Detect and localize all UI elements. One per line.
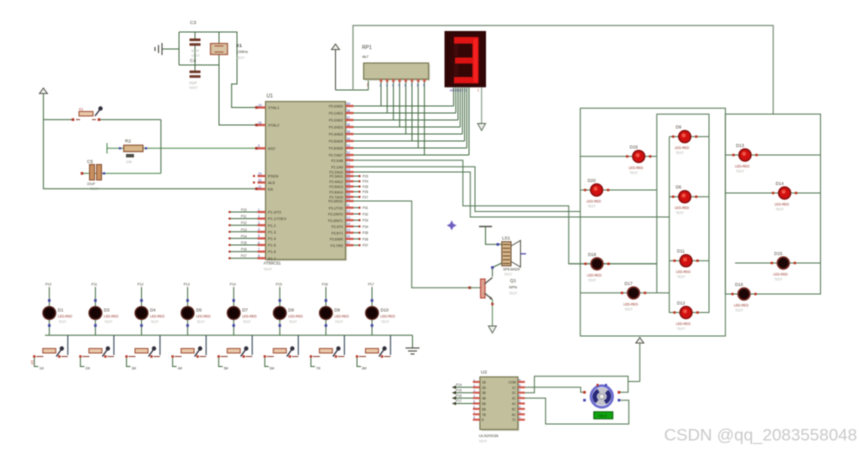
svg-text:19: 19 (258, 103, 262, 107)
power VCC (RP1) (332, 44, 340, 90)
box C frame (725, 114, 820, 294)
svg-text:P17: P17 (241, 254, 247, 258)
svg-text:LED-RED: LED-RED (242, 315, 257, 319)
U1 pin P2.2 (329, 168, 353, 175)
wire P0.5 run (354, 140, 465, 142)
svg-text:K1: K1 (79, 108, 83, 112)
LED D16 (725, 282, 820, 313)
svg-text:P16: P16 (322, 283, 328, 287)
svg-text:6: 6 (258, 241, 260, 245)
U2 pin 3 left (452, 388, 486, 395)
wire DS1 segment F (464, 87, 466, 141)
svg-text:P0.2/AD2: P0.2/AD2 (329, 119, 343, 123)
U1 pin P0.4 (329, 130, 354, 137)
svg-text:P17: P17 (456, 399, 462, 403)
LED D19 (580, 144, 657, 175)
wire P3.0 to Q1 base (354, 201, 472, 289)
wire Q1 emitter + ground arrow (488, 300, 496, 334)
svg-text:COM: COM (508, 380, 516, 384)
LED D6 (669, 185, 709, 216)
button SW4 (171, 335, 206, 370)
svg-text:LED-RED: LED-RED (629, 166, 644, 170)
svg-text:30pF: 30pF (191, 49, 200, 53)
svg-text:P37: P37 (363, 244, 369, 248)
button SW7 (310, 335, 345, 370)
U1 pin P0.0 (329, 102, 354, 109)
svg-text:TEXT: TEXT (736, 170, 744, 174)
wire P0.7 run (354, 154, 470, 156)
svg-text:XTAL2: XTAL2 (268, 124, 279, 128)
wire LS1 to Q1 (491, 263, 502, 277)
svg-text:P15: P15 (276, 283, 282, 287)
svg-text:P3.1/TXD: P3.1/TXD (329, 206, 344, 210)
svg-text:C3: C3 (190, 20, 196, 26)
LED D8 (273, 283, 304, 336)
button SW5 (218, 335, 253, 370)
svg-text:P33: P33 (363, 219, 369, 223)
svg-text:LED-RED: LED-RED (334, 315, 349, 319)
LED D11 (669, 249, 709, 280)
U2 pin right 3C (512, 394, 525, 401)
svg-text:CSDN @qq_2083558048: CSDN @qq_2083558048 (664, 426, 857, 445)
U1 pin P1.4 (229, 234, 276, 241)
wire P0.1 run (354, 112, 456, 114)
U1 pin P0.3 (329, 123, 354, 130)
U2 pin 7 left (473, 410, 486, 417)
svg-text:P1.3: P1.3 (268, 230, 276, 234)
wire reset top (43, 119, 160, 121)
svg-text:P3.0/RXD: P3.0/RXD (328, 200, 343, 204)
svg-text:PSEN: PSEN (268, 175, 279, 179)
wire reset right (160, 120, 162, 174)
button SW6 (264, 335, 299, 370)
svg-text:D19: D19 (630, 144, 639, 149)
U1 pin P3.4 (331, 222, 368, 229)
svg-text:P1.6: P1.6 (268, 250, 276, 254)
U2 pin 5 left (452, 399, 486, 406)
svg-text:ALE: ALE (268, 181, 276, 185)
LED D9 (319, 283, 350, 336)
wire P2.0 to D18 row (354, 160, 657, 264)
svg-text:6#: 6# (270, 366, 275, 371)
wire P0.0 run (354, 105, 454, 107)
svg-text:P13: P13 (241, 228, 247, 232)
svg-text:5B: 5B (482, 402, 486, 406)
RP1 pin 9 wire (423, 79, 426, 155)
svg-text:P12: P12 (241, 221, 247, 225)
button SW8 (356, 335, 391, 370)
svg-text:P14: P14 (230, 283, 236, 287)
svg-text:D8: D8 (288, 308, 294, 313)
svg-text:P2.5/A13: P2.5/A13 (329, 185, 343, 189)
LED D13 (725, 143, 820, 174)
svg-text:LED-RED: LED-RED (58, 315, 73, 319)
transistor Q1 (470, 278, 518, 300)
svg-text:P1.7: P1.7 (268, 257, 276, 261)
LED D15 (735, 251, 821, 282)
svg-text:D9: D9 (676, 125, 682, 130)
wire DS1 common + ground arrow (478, 87, 486, 130)
svg-text:P25: P25 (363, 185, 369, 189)
svg-text:6B: 6B (482, 407, 486, 411)
svg-text:5: 5 (258, 234, 260, 238)
svg-text:26: 26 (347, 182, 351, 186)
svg-text:P0.1/AD1: P0.1/AD1 (329, 112, 343, 116)
DS1 pin labels (450, 88, 480, 92)
U1 pin P2.3 (330, 172, 369, 179)
svg-text:8: 8 (258, 254, 260, 258)
node marker (plus) (447, 220, 457, 230)
svg-text:TEXT: TEXT (479, 440, 487, 444)
svg-text:P15: P15 (241, 241, 247, 245)
svg-text:LED-RED: LED-RED (196, 315, 211, 319)
U1 pin XTAL1 (258, 103, 280, 110)
wire top rail (353, 26, 773, 115)
svg-text:NPN: NPN (509, 286, 517, 290)
button SW2 (79, 335, 114, 370)
U1 pin P2.7 (329, 193, 368, 200)
RP1 pin 4 wire (392, 79, 395, 120)
LED D12 (669, 301, 709, 332)
svg-text:9: 9 (258, 144, 260, 148)
svg-text:P24: P24 (363, 180, 369, 184)
svg-text:C4: C4 (190, 58, 196, 64)
svg-text:TEXT: TEXT (504, 273, 512, 277)
svg-text:LED-RED: LED-RED (104, 315, 119, 319)
LED D20 (580, 178, 657, 209)
svg-text:3#: 3# (132, 366, 137, 371)
svg-text:LED-RED: LED-RED (675, 206, 690, 210)
svg-text:TEXT: TEXT (58, 320, 66, 324)
driver U2 body (479, 369, 520, 443)
svg-text:P3.4/T0: P3.4/T0 (331, 225, 343, 229)
svg-text:AT89C51: AT89C51 (264, 261, 282, 266)
svg-text:5#: 5# (224, 366, 229, 371)
svg-text:P2.4/A12: P2.4/A12 (329, 180, 343, 184)
ground (crystal) (155, 43, 179, 55)
svg-text:C5: C5 (87, 159, 93, 164)
U2 pin right 7C (512, 416, 525, 423)
svg-text:17: 17 (347, 241, 351, 245)
svg-text:R2: R2 (125, 139, 131, 144)
svg-text:E: E (482, 418, 484, 422)
wire P0.2 run (354, 119, 459, 121)
svg-text:LED-RED: LED-RED (676, 270, 691, 274)
button SW3 (125, 335, 160, 370)
svg-text:LED-RED: LED-RED (288, 315, 303, 319)
MCU U1 body (264, 94, 348, 272)
svg-text:P12: P12 (138, 283, 144, 287)
svg-text:Q1: Q1 (510, 278, 517, 283)
box B frame (657, 114, 709, 312)
svg-text:18: 18 (258, 121, 262, 125)
svg-text:4B: 4B (482, 397, 486, 401)
svg-text:4k7: 4k7 (362, 54, 369, 59)
LED D1 (42, 283, 73, 336)
svg-text:TEXT: TEXT (243, 320, 251, 324)
LED D14 (725, 181, 820, 212)
wire EA rail (43, 120, 257, 191)
RP1 pin 2 wire (380, 79, 383, 106)
U1 pin P2.1 (331, 163, 353, 170)
svg-text:RP1: RP1 (362, 45, 372, 51)
svg-text:D10: D10 (381, 308, 390, 313)
svg-text:D6: D6 (676, 185, 682, 190)
svg-text:P3.6/WR: P3.6/WR (330, 238, 344, 242)
wire reset bottom (green) (81, 172, 161, 175)
U1 pin P3.5 (331, 229, 368, 236)
svg-text:2B: 2B (482, 386, 486, 390)
U1 pin P3.7 (331, 241, 369, 248)
svg-text:D1: D1 (58, 308, 64, 313)
U1 pin P0.7 (329, 151, 354, 158)
svg-text:P36: P36 (363, 237, 369, 241)
svg-text:11: 11 (347, 204, 351, 208)
svg-text:P1.4: P1.4 (268, 237, 276, 241)
svg-text:D6: D6 (196, 308, 202, 313)
svg-text:D4: D4 (150, 308, 156, 313)
svg-text:EA: EA (268, 188, 274, 192)
U2 pin 8 left (473, 416, 484, 423)
svg-text:D12: D12 (677, 301, 686, 306)
svg-text:P14: P14 (241, 234, 247, 238)
U1 pin P3.3 (328, 216, 368, 223)
svg-text:P16: P16 (241, 248, 247, 252)
wire LED rail (45, 334, 413, 336)
svg-text:TEXT: TEXT (289, 320, 297, 324)
svg-text:TEXT: TEXT (381, 320, 389, 324)
U1 pin EA (258, 185, 274, 192)
RP1 pin 3 wire (386, 79, 389, 113)
svg-text:P23: P23 (363, 175, 369, 179)
svg-text:7C: 7C (512, 418, 517, 422)
svg-text:P1.1/T2EX: P1.1/T2EX (268, 217, 287, 221)
svg-text:X1: X1 (236, 43, 242, 49)
U1 pin RST (258, 144, 277, 151)
svg-text:4: 4 (258, 228, 260, 232)
svg-text:LED-RED: LED-RED (676, 322, 691, 326)
svg-text:+88.8: +88.8 (598, 414, 607, 418)
svg-text:2: 2 (380, 84, 382, 88)
svg-text:LED-RED: LED-RED (735, 165, 750, 169)
LED D4 (135, 283, 166, 336)
svg-text:2C: 2C (512, 391, 517, 395)
wire VCC to motor (628, 381, 640, 383)
power bar (LS1) (479, 227, 502, 245)
wire DS1 segment B (455, 87, 457, 113)
svg-text:LED-RED: LED-RED (587, 273, 602, 277)
U1 pin P3.2 (328, 210, 368, 217)
svg-text:34: 34 (347, 137, 351, 141)
svg-text:1#: 1# (30, 360, 35, 365)
svg-text:D14: D14 (776, 181, 785, 186)
svg-text:LED-RED: LED-RED (587, 200, 602, 204)
svg-text:ULN2003A: ULN2003A (479, 433, 499, 438)
LED D17 (580, 281, 669, 312)
crystal X1 (211, 43, 249, 60)
svg-text:P27: P27 (363, 195, 369, 199)
svg-text:15: 15 (347, 229, 351, 233)
svg-text:D18: D18 (588, 252, 597, 257)
svg-text:P3.3/INT1: P3.3/INT1 (328, 219, 343, 223)
svg-text:D13: D13 (736, 143, 745, 148)
svg-text:2: 2 (258, 214, 260, 218)
svg-text:36: 36 (347, 123, 351, 127)
svg-text:P34: P34 (363, 225, 369, 229)
wire U2 to motor right (525, 376, 628, 393)
svg-text:P1.0/T2: P1.0/T2 (268, 211, 281, 215)
svg-text:P2.6/A14: P2.6/A14 (329, 190, 343, 194)
U2 pin 6 left (473, 405, 486, 412)
svg-text:D11: D11 (677, 249, 685, 254)
svg-text:P0.4/AD4: P0.4/AD4 (329, 133, 343, 137)
LED D6 (181, 283, 212, 336)
svg-text:LED-RED: LED-RED (381, 315, 396, 319)
svg-text:13: 13 (347, 216, 351, 220)
svg-text:U2: U2 (481, 369, 487, 375)
svg-text:35: 35 (347, 130, 351, 134)
svg-text:32: 32 (347, 151, 351, 155)
wire P0.6 run (354, 147, 467, 149)
button K1 (reset) (72, 106, 103, 121)
svg-text:24: 24 (347, 172, 351, 176)
svg-text:22uF: 22uF (87, 182, 96, 186)
svg-text:25: 25 (347, 177, 351, 181)
svg-text:5: 5 (398, 84, 400, 88)
svg-text:P11: P11 (91, 283, 97, 287)
svg-text:12MHz: 12MHz (236, 50, 248, 54)
capacitor C4 (189, 58, 201, 90)
svg-text:LED-RED: LED-RED (150, 315, 165, 319)
wire DS1 segment A (453, 87, 455, 106)
svg-text:TEXT: TEXT (191, 54, 200, 58)
svg-text:10k: 10k (126, 160, 132, 164)
svg-text:TEXT: TEXT (151, 320, 159, 324)
svg-text:TEXT: TEXT (776, 208, 784, 212)
svg-text:3C: 3C (512, 397, 517, 401)
svg-text:TEXT: TEXT (630, 171, 638, 175)
svg-text:TEXT: TEXT (104, 320, 112, 324)
svg-text:4#: 4# (178, 366, 183, 371)
LED D10 (365, 283, 396, 336)
U1 pin ALE (253, 178, 276, 185)
svg-text:TEXT: TEXT (735, 309, 743, 313)
svg-text:TEXT: TEXT (335, 320, 343, 324)
svg-text:30pF: 30pF (189, 81, 198, 85)
U1 pin P2.4 (329, 177, 368, 184)
svg-text:P3.5/T1: P3.5/T1 (331, 231, 343, 235)
svg-text:33: 33 (347, 144, 351, 148)
U1 pin P3.1 (329, 204, 369, 211)
svg-text:P35: P35 (363, 231, 369, 235)
svg-text:4: 4 (392, 84, 394, 88)
svg-text:RST: RST (268, 147, 276, 151)
U2 pin 2 left (452, 383, 486, 390)
wire P2.1 to box A (354, 167, 581, 212)
U1 pin P2.6 (329, 188, 368, 195)
svg-text:12: 12 (347, 210, 351, 214)
wire XTAL1 top (179, 32, 258, 109)
box A frame (580, 108, 725, 336)
svg-text:P26: P26 (363, 190, 369, 194)
svg-text:14: 14 (347, 222, 351, 226)
U1 pin P2.0 (331, 156, 353, 163)
wire RST (green) (107, 143, 258, 154)
svg-text:P0.6/AD6: P0.6/AD6 (329, 147, 343, 151)
svg-text:TEXT: TEXT (197, 320, 205, 324)
U1 pin P1.7 (229, 254, 276, 261)
U1 pin P2.5 (329, 182, 368, 189)
svg-text:10: 10 (347, 197, 351, 201)
power VCC (LED block) (636, 338, 644, 382)
svg-text:P15: P15 (456, 388, 462, 392)
U1 pin P1.5 (229, 241, 276, 248)
svg-text:P0.3/AD3: P0.3/AD3 (329, 126, 343, 130)
RP1 pin 5 wire (398, 79, 401, 127)
svg-text:7#: 7# (316, 366, 321, 371)
RP1 pin 6 wire (404, 79, 407, 134)
7-segment display DS1 (445, 31, 487, 87)
resistor pack RP1 (362, 45, 430, 87)
svg-text:TEXT: TEXT (509, 292, 517, 296)
U2 pin right 6C (512, 410, 525, 417)
svg-text:D7: D7 (242, 308, 248, 313)
svg-text:22: 22 (347, 163, 351, 167)
U1 pin PSEN (253, 172, 279, 179)
svg-text:D17: D17 (625, 281, 634, 286)
wire DS1 segment G (466, 87, 468, 148)
svg-text:1B: 1B (482, 380, 486, 384)
LED D9 (669, 125, 709, 156)
svg-text:TEXT: TEXT (774, 278, 782, 282)
U2 pin right 5C (512, 405, 525, 412)
wire XTAL2 bottom (179, 32, 258, 126)
svg-text:38: 38 (347, 109, 351, 113)
wire P0.3 run (354, 126, 461, 128)
svg-text:P0.5/AD5: P0.5/AD5 (329, 140, 343, 144)
U1 pin P1.1 (229, 214, 287, 221)
wire P2.2 to box B (354, 172, 670, 217)
svg-text:37: 37 (347, 116, 351, 120)
svg-text:P14: P14 (456, 383, 462, 387)
svg-text:D20: D20 (588, 178, 597, 183)
svg-text:TEXT: TEXT (677, 327, 685, 331)
svg-text:1C: 1C (512, 386, 517, 390)
svg-text:D3: D3 (104, 308, 110, 313)
svg-text:P17: P17 (368, 283, 374, 287)
svg-text:TEXT: TEXT (588, 278, 596, 282)
svg-text:LED-RED: LED-RED (675, 146, 690, 150)
svg-text:8#: 8# (362, 366, 367, 371)
svg-text:LS1: LS1 (502, 236, 511, 241)
svg-text:P13: P13 (184, 283, 190, 287)
ground (LED rail) (406, 335, 420, 354)
watermark (664, 426, 857, 445)
wire U2 to motor left (525, 387, 583, 392)
svg-text:8: 8 (417, 84, 419, 88)
wire P0.4 run (354, 133, 463, 135)
svg-text:TEXT: TEXT (676, 151, 684, 155)
wire DS1 segment C (457, 87, 459, 120)
svg-text:4C: 4C (512, 402, 517, 406)
RP1 pin 7 wire (411, 79, 414, 141)
svg-text:2#: 2# (85, 366, 90, 371)
svg-text:1: 1 (367, 83, 369, 87)
svg-text:7B: 7B (482, 413, 486, 417)
svg-text:P0.0/AD0: P0.0/AD0 (329, 105, 343, 109)
svg-text:P10: P10 (45, 283, 51, 287)
svg-text:LED-RED: LED-RED (773, 273, 788, 277)
